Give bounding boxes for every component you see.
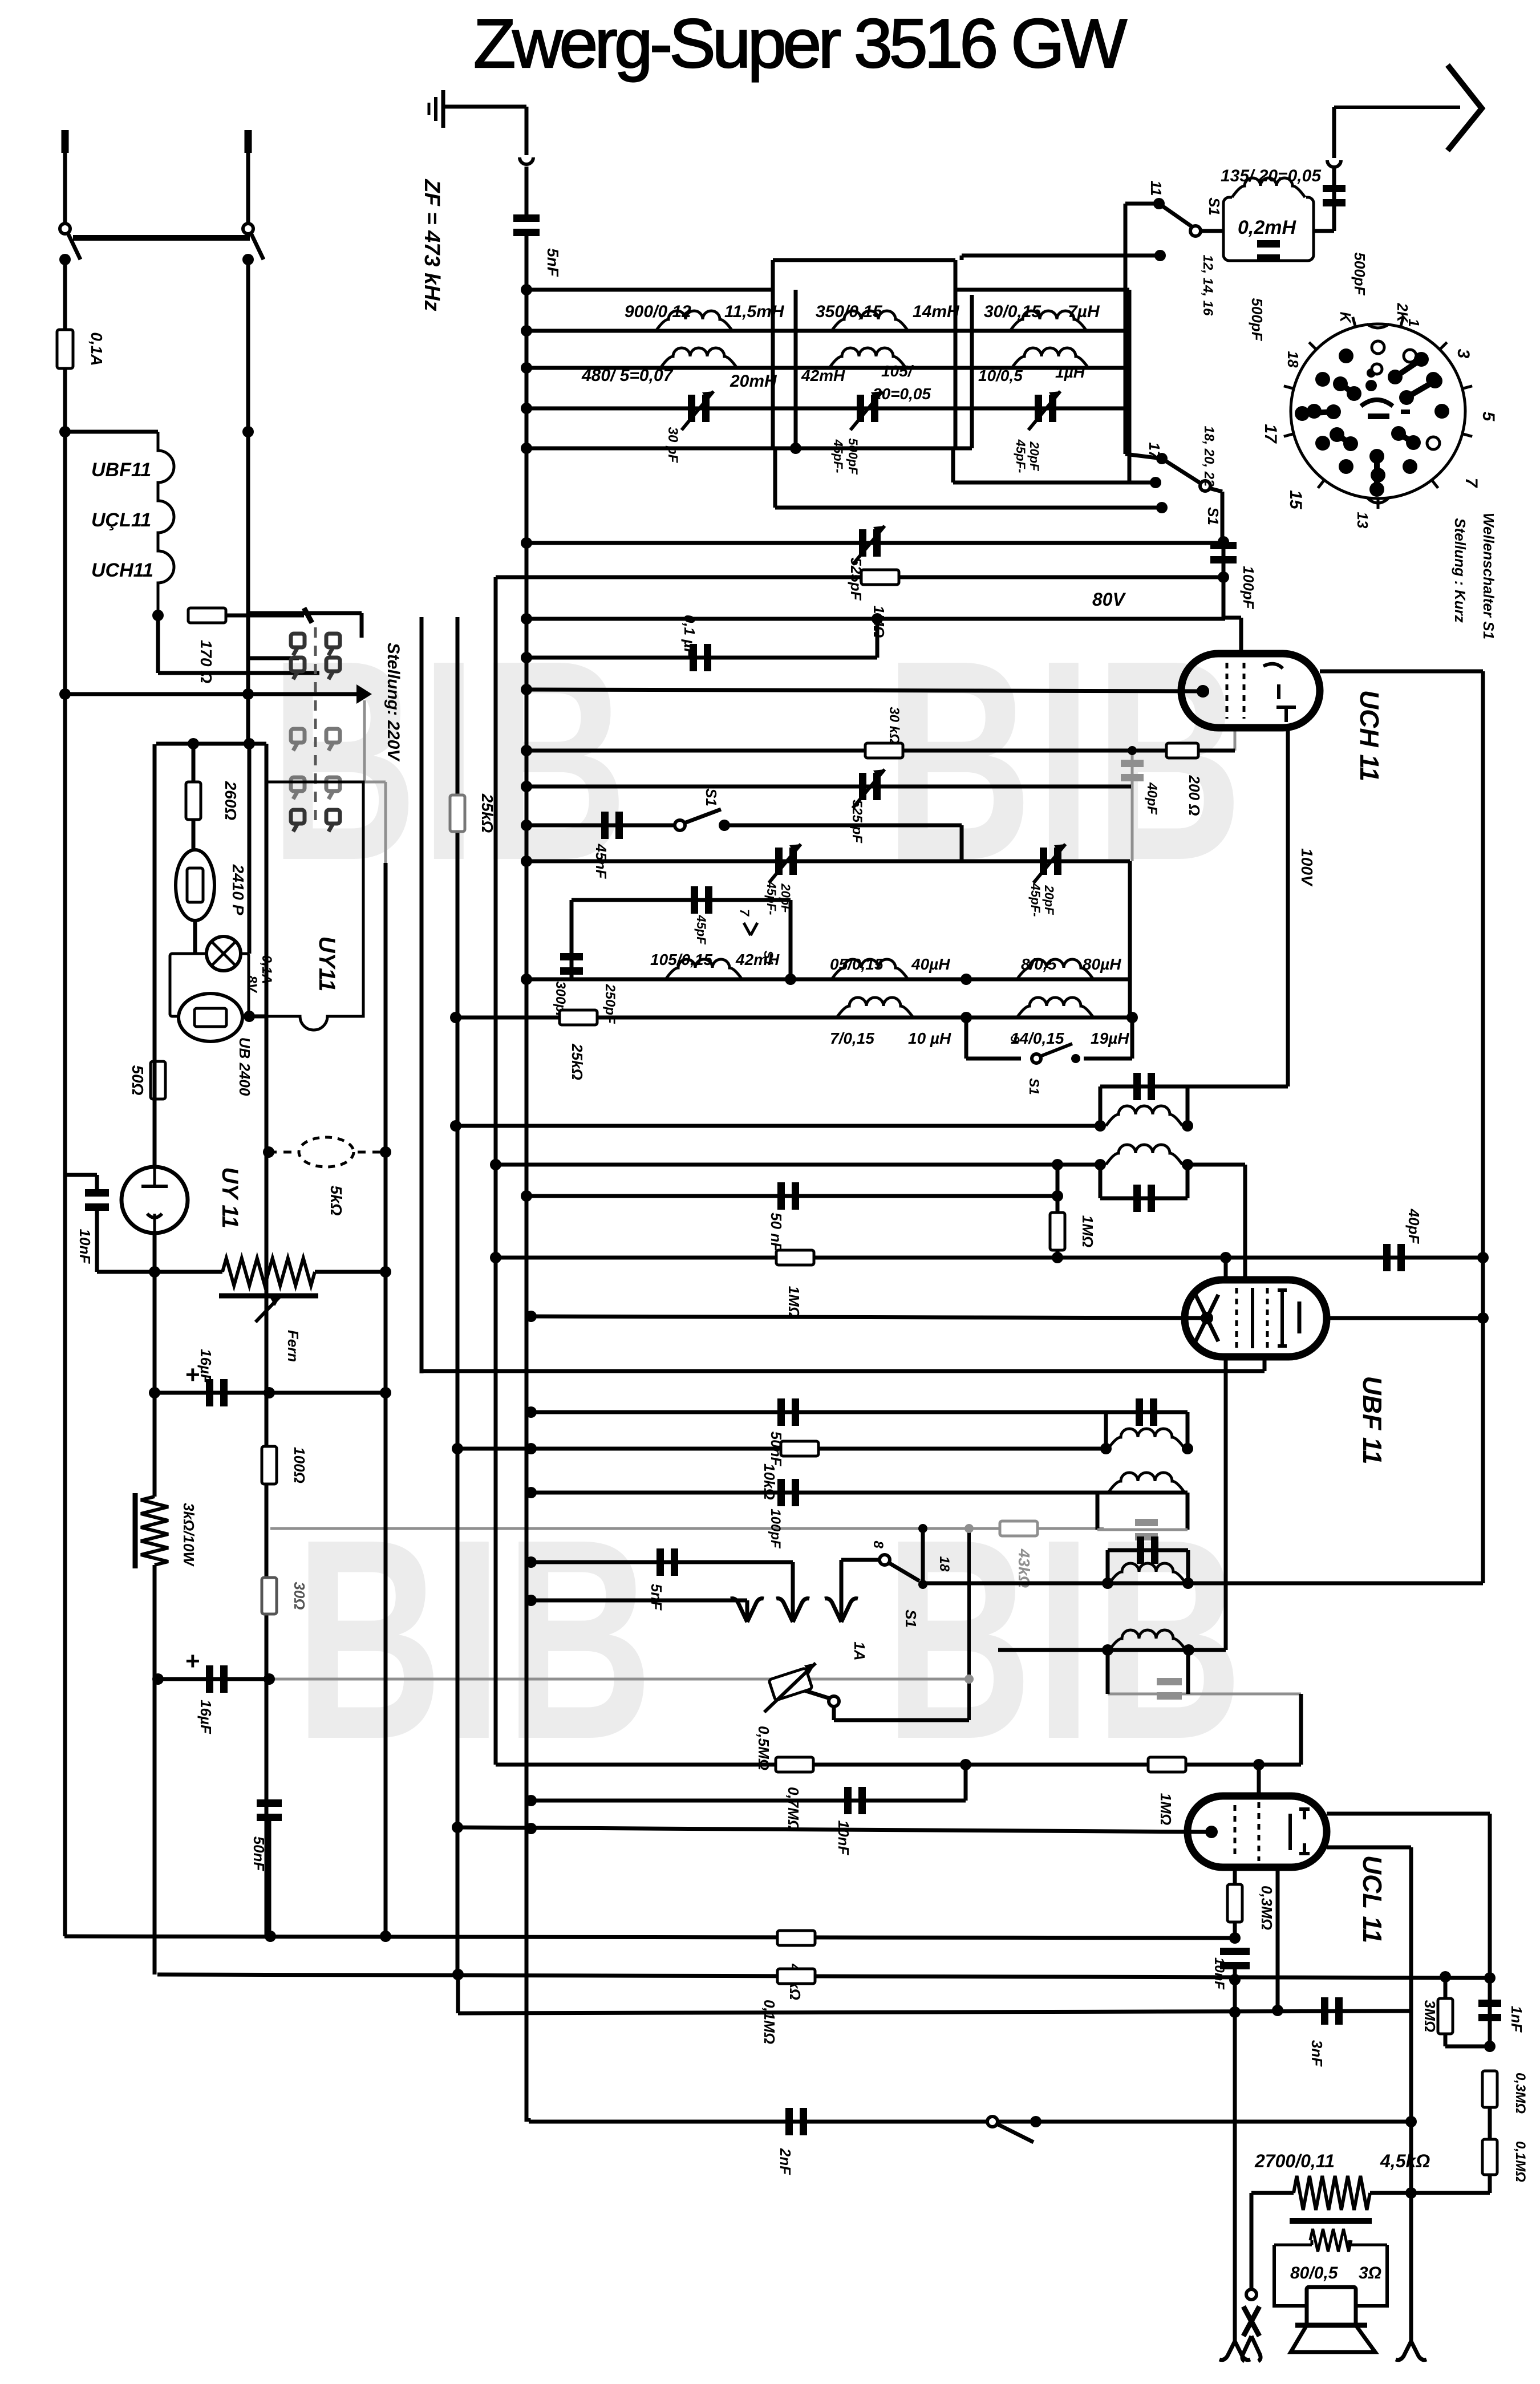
svg-text:S1: S1 — [703, 788, 720, 806]
svg-text:10 µH: 10 µH — [908, 1029, 951, 1047]
svg-text:UCH11: UCH11 — [91, 559, 153, 581]
svg-text:10nF: 10nF — [835, 1821, 852, 1856]
svg-text:105/: 105/ — [881, 362, 914, 380]
svg-text:40µH: 40µH — [911, 955, 950, 973]
svg-text:45pF: 45pF — [694, 914, 708, 944]
svg-text:5nF: 5nF — [544, 248, 562, 277]
svg-text:BIB: BIB — [885, 602, 1246, 920]
svg-text:17: 17 — [1146, 443, 1163, 460]
svg-text:7: 7 — [1462, 478, 1481, 488]
svg-text:40pF: 40pF — [1405, 1209, 1423, 1244]
svg-text:8/0,5: 8/0,5 — [1021, 955, 1057, 973]
svg-text:45pF-: 45pF- — [1028, 883, 1043, 917]
svg-text:Fern: Fern — [285, 1330, 302, 1362]
svg-text:UCH 11: UCH 11 — [1355, 690, 1384, 781]
svg-text:105/0,15: 105/0,15 — [650, 951, 712, 968]
svg-text:18: 18 — [1284, 351, 1302, 368]
svg-text:16µF: 16µF — [197, 1700, 214, 1734]
svg-text:UBF11: UBF11 — [91, 459, 151, 481]
svg-text:40pF: 40pF — [1144, 782, 1160, 815]
svg-text:Stellung : Kurz: Stellung : Kurz — [1452, 518, 1469, 622]
svg-text:20pF: 20pF — [1042, 885, 1056, 915]
svg-text:Wellenschalter S1: Wellenschalter S1 — [1480, 513, 1497, 639]
svg-text:12, 14, 16: 12, 14, 16 — [1200, 255, 1215, 316]
svg-text:1nF: 1nF — [1508, 2006, 1525, 2033]
svg-text:25kΩ: 25kΩ — [479, 793, 496, 833]
svg-text:200 Ω: 200 Ω — [1186, 775, 1203, 816]
svg-text:500pF: 500pF — [1249, 298, 1266, 341]
svg-text:S1: S1 — [1206, 197, 1223, 216]
svg-text:K: K — [1337, 312, 1354, 324]
svg-text:4,5kΩ: 4,5kΩ — [1380, 2151, 1430, 2171]
svg-text:S1: S1 — [1026, 1078, 1041, 1094]
svg-text:100V: 100V — [1298, 848, 1316, 887]
svg-text:UBF 11: UBF 11 — [1357, 1376, 1387, 1464]
svg-text:100Ω: 100Ω — [291, 1447, 308, 1483]
svg-text:19µH: 19µH — [1091, 1029, 1129, 1047]
svg-text:50nF: 50nF — [250, 1836, 268, 1872]
svg-text:30 pF: 30 pF — [665, 427, 680, 464]
svg-text:05/0,15: 05/0,15 — [830, 955, 884, 973]
svg-text:50Ω: 50Ω — [129, 1065, 147, 1095]
svg-text:350/0,15: 350/0,15 — [816, 302, 883, 321]
svg-text:10nF: 10nF — [76, 1229, 94, 1264]
svg-text:1MΩ: 1MΩ — [785, 1286, 803, 1318]
svg-text:2nF: 2nF — [777, 2148, 794, 2175]
svg-text:14mH: 14mH — [913, 302, 960, 321]
svg-text:30Ω: 30Ω — [291, 1582, 308, 1609]
svg-text:18: 18 — [937, 1556, 952, 1572]
svg-text:15: 15 — [1286, 490, 1305, 510]
svg-text:260Ω: 260Ω — [222, 781, 240, 821]
svg-text:5kΩ: 5kΩ — [327, 1185, 345, 1215]
svg-text:0,1MΩ: 0,1MΩ — [1513, 2141, 1528, 2182]
svg-text:+: + — [185, 1647, 200, 1675]
svg-text:BIB: BIB — [270, 602, 631, 920]
svg-text:20mH: 20mH — [730, 372, 777, 391]
svg-text:0,2mH: 0,2mH — [1238, 217, 1296, 238]
svg-text:18, 20, 22: 18, 20, 22 — [1201, 426, 1217, 487]
svg-text:45pF-: 45pF- — [1014, 439, 1028, 473]
svg-text:8V: 8V — [244, 975, 260, 993]
svg-text:42mH: 42mH — [801, 367, 845, 384]
svg-text:50 nF: 50 nF — [768, 1213, 785, 1252]
svg-text:2K: 2K — [1394, 302, 1411, 323]
svg-text:80V: 80V — [1092, 589, 1126, 610]
svg-text:900/0,12: 900/0,12 — [625, 302, 691, 321]
svg-text:10/0,5: 10/0,5 — [978, 367, 1023, 384]
svg-text:11,5mH: 11,5mH — [724, 302, 785, 321]
svg-text:30 kΩ: 30 kΩ — [886, 707, 902, 744]
svg-text:11: 11 — [1148, 181, 1165, 196]
svg-text:Zwerg-Super 3516 GW: Zwerg-Super 3516 GW — [473, 5, 1127, 82]
svg-text:13: 13 — [1354, 512, 1371, 529]
svg-text:8: 8 — [870, 1540, 886, 1548]
svg-text:1µH: 1µH — [1055, 363, 1085, 381]
svg-text:500pF: 500pF — [846, 438, 860, 475]
svg-text:UY 11: UY 11 — [217, 1167, 242, 1228]
svg-text:20=0,05: 20=0,05 — [872, 385, 931, 403]
svg-text:5nF: 5nF — [648, 1584, 665, 1611]
svg-text:2410 P: 2410 P — [229, 864, 247, 915]
svg-text:25kΩ: 25kΩ — [569, 1043, 586, 1080]
svg-text:20pF: 20pF — [1027, 441, 1041, 471]
svg-text:10nF: 10nF — [1211, 1957, 1227, 1990]
svg-text:45pF-: 45pF- — [831, 439, 845, 473]
svg-text:UY11: UY11 — [314, 936, 339, 991]
svg-text:100pF: 100pF — [768, 1509, 783, 1549]
svg-text:2700/0,11: 2700/0,11 — [1254, 2151, 1335, 2171]
svg-text:135/ 20=0,05: 135/ 20=0,05 — [1221, 167, 1322, 185]
svg-text:80/0,5: 80/0,5 — [1290, 2264, 1339, 2282]
svg-text:1A: 1A — [851, 1641, 868, 1660]
svg-text:42mH: 42mH — [735, 951, 780, 968]
svg-text:1MΩ: 1MΩ — [1079, 1215, 1096, 1247]
svg-text:7µH: 7µH — [1068, 302, 1100, 321]
svg-text:3MΩ: 3MΩ — [1421, 2000, 1438, 2032]
svg-text:1MΩ: 1MΩ — [1157, 1793, 1174, 1825]
svg-text:Stellung: 220V: Stellung: 220V — [384, 643, 403, 763]
svg-text:UCL 11: UCL 11 — [1357, 1855, 1387, 1943]
svg-text:170 Ω: 170 Ω — [197, 640, 215, 683]
svg-text:480/ 5=0,07: 480/ 5=0,07 — [581, 366, 674, 385]
svg-text:5: 5 — [1479, 412, 1498, 422]
svg-text:ZF = 473 kHz: ZF = 473 kHz — [420, 179, 444, 311]
svg-text:3kΩ/10W: 3kΩ/10W — [180, 1503, 197, 1567]
svg-text:3nF: 3nF — [1308, 2040, 1326, 2067]
svg-text:16µF: 16µF — [197, 1349, 214, 1384]
svg-text:30/0,15: 30/0,15 — [984, 302, 1041, 321]
svg-text:0,1A: 0,1A — [88, 332, 106, 366]
svg-text:0,3MΩ: 0,3MΩ — [1513, 2073, 1528, 2114]
svg-text:S1: S1 — [902, 1609, 919, 1628]
svg-text:0,1MΩ: 0,1MΩ — [761, 2000, 778, 2044]
svg-text:80µH: 80µH — [1083, 955, 1121, 973]
svg-text:500pF: 500pF — [1351, 252, 1368, 295]
svg-text:3: 3 — [1454, 349, 1473, 359]
svg-text:7: 7 — [737, 909, 752, 917]
svg-text:7/0,15: 7/0,15 — [830, 1029, 874, 1047]
svg-text:3Ω: 3Ω — [1359, 2264, 1381, 2282]
svg-text:UB 2400: UB 2400 — [236, 1037, 253, 1096]
svg-text:525 pF: 525 pF — [849, 800, 865, 844]
svg-text:0,1 µF: 0,1 µF — [681, 615, 698, 658]
svg-text:9: 9 — [1008, 1036, 1022, 1043]
svg-text:17: 17 — [1261, 424, 1280, 444]
svg-text:0,5MΩ: 0,5MΩ — [755, 1726, 772, 1770]
svg-text:0,7MΩ: 0,7MΩ — [785, 1787, 802, 1831]
svg-text:100pF: 100pF — [1240, 566, 1257, 609]
svg-text:S1: S1 — [1205, 507, 1222, 525]
svg-text:0,3MΩ: 0,3MΩ — [1258, 1886, 1275, 1930]
svg-text:UÇL11: UÇL11 — [91, 509, 151, 531]
